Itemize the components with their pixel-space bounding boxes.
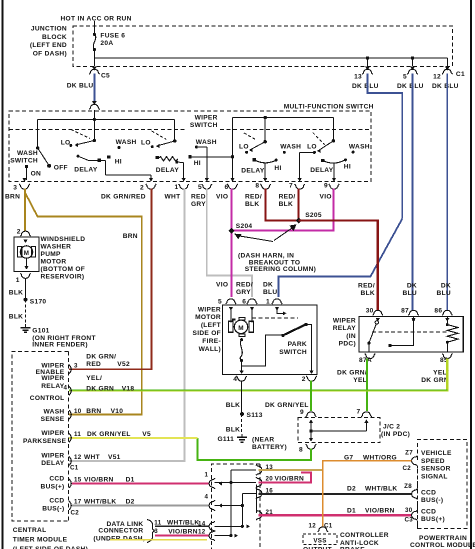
svg-text:V51: V51 — [108, 454, 121, 461]
ground G101 — [25, 324, 27, 328]
svg-text:VSS: VSS — [313, 537, 326, 544]
svg-text:RED/: RED/ — [191, 193, 208, 200]
svg-text:5: 5 — [198, 184, 202, 191]
wire VIO/BRN cup21 to PCM 30 — [259, 514, 412, 516]
svg-text:WASH: WASH — [116, 139, 137, 146]
LO contact to pin7 — [300, 152, 315, 154]
junction block internal feed wire — [94, 57, 447, 59]
svg-text:C3: C3 — [404, 516, 413, 523]
svg-text:DK BLU: DK BLU — [432, 83, 459, 90]
svg-text:3: 3 — [13, 185, 17, 192]
svg-text:LO: LO — [141, 140, 151, 147]
svg-text:YEL: YEL — [353, 377, 367, 384]
svg-text:J/C 2: J/C 2 — [383, 423, 400, 430]
svg-text:1: 1 — [16, 277, 20, 284]
junction cup 20 right — [256, 477, 262, 487]
svg-text:Z7: Z7 — [405, 449, 413, 456]
svg-text:WINDSHIELD: WINDSHIELD — [41, 236, 86, 243]
svg-text:30: 30 — [405, 507, 413, 514]
wire DK GRN/YEL (yellow) CTM pin11 — [69, 437, 198, 439]
svg-text:CCD: CCD — [421, 490, 436, 497]
junction cup 4 left — [209, 500, 215, 510]
wiper motor box — [223, 305, 318, 375]
svg-text:RELAY: RELAY — [333, 325, 357, 332]
connector C1 pin 13 drop — [367, 58, 369, 66]
junction link cup20 to cup21 — [256, 485, 258, 514]
mech linkage dashes section A — [244, 133, 256, 140]
svg-text:DELAY: DELAY — [156, 167, 180, 174]
node feed tap A — [264, 116, 267, 119]
switch blade LO section2 — [157, 141, 174, 146]
wire WHT/ORG stub cup13 — [259, 469, 323, 471]
svg-text:CENTRAL: CENTRAL — [13, 527, 47, 534]
svg-text:POWERTRAIN: POWERTRAIN — [419, 535, 467, 542]
svg-text:BLK: BLK — [226, 402, 240, 409]
svg-text:WASH: WASH — [280, 144, 301, 151]
svg-text:BLK: BLK — [226, 427, 240, 434]
svg-text:BLOCK: BLOCK — [42, 34, 67, 41]
svg-text:DELAY: DELAY — [241, 168, 265, 175]
svg-text:ON: ON — [31, 171, 41, 178]
svg-text:DK: DK — [441, 283, 451, 290]
junction internal bus CCD+ — [230, 470, 232, 536]
svg-text:RED/: RED/ — [358, 283, 375, 290]
svg-text:HI: HI — [115, 159, 122, 166]
svg-text:C1: C1 — [324, 523, 333, 530]
svg-text:RESERVOIR): RESERVOIR) — [41, 274, 85, 281]
wire BRN from pin3 (branch to washer pump and wash sense) — [24, 189, 26, 232]
svg-text:WIPER: WIPER — [198, 306, 221, 313]
svg-text:RED: RED — [86, 361, 101, 368]
svg-text:BRN: BRN — [86, 408, 101, 415]
junction block box (dashed, bottom) — [212, 464, 261, 549]
svg-text:VIO/BRN: VIO/BRN — [275, 476, 305, 483]
svg-text:BLK: BLK — [9, 314, 23, 321]
wash switch — [37, 119, 39, 148]
pin 1 cup — [179, 184, 189, 189]
svg-text:8: 8 — [255, 182, 259, 189]
delay resistor section2 to pin1 — [156, 156, 159, 159]
svg-text:MOTOR: MOTOR — [195, 314, 221, 321]
DLC brace — [147, 520, 155, 543]
svg-text:CONNECTOR: CONNECTOR — [98, 528, 143, 535]
pin 7 cup — [295, 184, 305, 189]
svg-text:SENSOR: SENSOR — [421, 466, 451, 473]
svg-text:WIPER: WIPER — [41, 430, 64, 437]
relay pin 30 cup — [373, 310, 383, 315]
svg-text:1: 1 — [205, 472, 209, 479]
svg-text:VIO/BRN: VIO/BRN — [168, 529, 198, 536]
wire WHT from pin1 to CTM wiper delay — [69, 189, 185, 462]
svg-text:WHT: WHT — [165, 193, 181, 200]
wire YEL under DLC — [110, 539, 207, 541]
node feed entry — [93, 118, 96, 121]
svg-text:VIO: VIO — [216, 193, 228, 200]
svg-text:DK BLU: DK BLU — [352, 83, 379, 90]
svg-text:BLU: BLU — [263, 289, 277, 296]
svg-text:8: 8 — [299, 447, 303, 454]
svg-text:V10: V10 — [111, 408, 124, 415]
svg-text:DK: DK — [263, 282, 273, 289]
switch blade LO section1 — [76, 141, 94, 145]
wire VIO/BRN DLC3 to junction cup12 — [155, 534, 209, 536]
svg-text:VIO: VIO — [320, 193, 332, 200]
multi-function feed wire — [233, 117, 334, 119]
svg-text:86: 86 — [434, 307, 442, 314]
motor pin 2 cup — [306, 376, 316, 381]
svg-text:G111: G111 — [218, 436, 235, 443]
svg-text:S113: S113 — [247, 412, 263, 419]
CTM pin 17 fin CCD- — [69, 501, 71, 510]
multi-function switch box (dashed) — [9, 111, 371, 181]
svg-text:BLK: BLK — [9, 290, 23, 297]
junction cup 12 left — [209, 530, 215, 540]
relay contact 87 branch — [392, 317, 414, 346]
svg-text:SWITCH: SWITCH — [10, 158, 38, 165]
junction internal bus CCD- — [241, 494, 243, 527]
svg-text:1: 1 — [175, 184, 179, 191]
wire DK BLU from C1-5 to wiper relay 87 — [412, 74, 414, 311]
svg-text:3: 3 — [154, 528, 158, 535]
wire RED/GRY from pin5 to motor pin6 — [207, 189, 252, 298]
svg-text:PARKSENSE: PARKSENSE — [23, 438, 67, 445]
delay arc section A to pin8 — [253, 158, 256, 161]
powertrain control module box (dashed) — [418, 440, 468, 529]
svg-text:5: 5 — [218, 298, 222, 305]
wire WHT/ORG VSS to PCM Z7 — [323, 461, 412, 527]
svg-text:2: 2 — [17, 228, 21, 235]
wire stub to HOT label — [93, 21, 95, 27]
svg-text:RED/: RED/ — [245, 193, 262, 200]
section B feed corner pivot — [332, 118, 334, 141]
wire YEL/DK GRN relay 85 to CTM wiper relay control — [69, 359, 447, 391]
svg-text:4: 4 — [205, 494, 209, 501]
svg-text:BUS(+): BUS(+) — [41, 484, 65, 491]
svg-text:WIPER: WIPER — [333, 318, 356, 325]
VSS box (dashed) — [303, 534, 337, 545]
svg-text:S204: S204 — [236, 223, 253, 230]
svg-text:DELAY: DELAY — [41, 460, 65, 467]
svg-text:VIO/BRN: VIO/BRN — [365, 508, 395, 515]
splice S204 — [229, 228, 235, 234]
wash switch drop to pin3 — [22, 178, 26, 182]
motor pin 1 cup — [272, 299, 282, 304]
wire WHT/BLK DLC11 to junction cup14 — [155, 525, 209, 527]
svg-text:DK: DK — [407, 283, 417, 290]
svg-text:RED/: RED/ — [279, 193, 296, 200]
connector C1 pin 5 drop — [412, 58, 414, 66]
motor brush wire wavy to pin4 — [240, 338, 243, 341]
svg-text:OF DASH): OF DASH) — [33, 50, 67, 57]
feed drop to pin6 — [232, 118, 234, 180]
splice S205 — [296, 218, 302, 224]
pin 8 cup — [260, 184, 270, 189]
svg-text:WALL): WALL) — [199, 346, 221, 353]
windshield washer pump motor box — [14, 237, 39, 272]
svg-text:5: 5 — [403, 73, 407, 80]
wiper switch feed wire — [38, 118, 175, 120]
park switch feed from motor — [242, 335, 282, 366]
svg-text:12: 12 — [433, 73, 441, 80]
svg-text:CCD: CCD — [49, 476, 64, 483]
wire BLK motor pin4 to G111 — [241, 381, 243, 415]
J/C2 pin 8 cup — [306, 444, 316, 449]
J/C2 pin 7 cup — [361, 412, 371, 417]
CTM pin 10 fin wash sense — [69, 410, 71, 419]
motor pin1 internal arrow to park switch — [277, 308, 283, 313]
wiper relay box — [359, 316, 463, 352]
svg-text:WASH: WASH — [44, 408, 65, 415]
wire DK GRN/YEL relay 87A to J/C2 pin7 — [366, 359, 368, 412]
svg-text:MOTOR: MOTOR — [41, 259, 67, 266]
svg-text:BLK: BLK — [245, 201, 259, 208]
svg-text:9: 9 — [300, 409, 304, 416]
wiper switch inner dashed line — [9, 128, 186, 130]
park switch output to pin2 — [306, 324, 312, 370]
wire RED/BLK from pin7 to S205 — [297, 189, 299, 221]
park switch dashed linkage — [252, 317, 298, 319]
svg-text:BLK: BLK — [361, 290, 375, 297]
svg-text:D2: D2 — [347, 486, 356, 493]
delay arc section B to pin9 — [321, 159, 324, 162]
junction cup 14 left — [209, 521, 215, 531]
svg-text:G101: G101 — [32, 327, 49, 334]
svg-text:LO: LO — [307, 144, 317, 151]
svg-text:30: 30 — [366, 307, 374, 314]
HI contact section2 to pin6 — [189, 155, 192, 158]
wiper motor symbol M — [230, 308, 232, 322]
svg-text:WHT/BLK: WHT/BLK — [167, 520, 200, 527]
svg-text:GRY: GRY — [236, 289, 251, 296]
J/C 2 box (dashed) — [298, 418, 380, 443]
svg-text:DK GRN: DK GRN — [421, 377, 449, 384]
wire DK GRN/YEL motor pin2 to J/C2 pin9 — [310, 381, 312, 412]
svg-text:VIO: VIO — [216, 282, 228, 289]
junction cup 1 left — [209, 478, 215, 488]
svg-text:DK BLU: DK BLU — [397, 83, 424, 90]
svg-text:(IN PDC): (IN PDC) — [381, 431, 410, 438]
junction cup 21 right — [256, 510, 262, 520]
svg-text:V5: V5 — [142, 431, 151, 438]
blade LO section B — [318, 141, 333, 151]
svg-text:D1: D1 — [347, 508, 356, 515]
svg-text:TIMER MODULE: TIMER MODULE — [13, 536, 68, 543]
wire DK BLU from C5 to wiper switch — [93, 74, 95, 102]
svg-text:SIDE OF: SIDE OF — [193, 330, 221, 337]
svg-text:WASH: WASH — [349, 144, 370, 151]
wire WHT/BLK cup16 to PCM Z8 — [259, 493, 412, 495]
svg-text:SENSE: SENSE — [41, 416, 65, 423]
washer pump pin 2 cup — [20, 231, 30, 236]
CTM pin 15 fin CCD+ — [69, 479, 71, 488]
svg-text:WIPER: WIPER — [41, 375, 64, 382]
pin 6 cup — [227, 184, 237, 189]
svg-text:INNER FENDER): INNER FENDER) — [32, 341, 88, 348]
mech linkage dashes section B — [313, 132, 325, 144]
svg-text:7: 7 — [357, 408, 361, 415]
fuse F6 20A — [93, 27, 95, 34]
svg-text:S170: S170 — [30, 298, 47, 305]
blade LO section A — [250, 142, 265, 150]
svg-text:4: 4 — [233, 376, 237, 383]
pin 5 cup — [202, 184, 212, 189]
svg-text:PUMP: PUMP — [41, 251, 62, 258]
svg-text:WIPER: WIPER — [195, 114, 218, 121]
svg-text:(LEFT: (LEFT — [201, 322, 221, 329]
svg-text:6: 6 — [242, 298, 246, 305]
svg-text:2: 2 — [140, 185, 144, 192]
wire RED/BLK from pin8 to S205 — [266, 189, 299, 221]
junction cup 16 right — [256, 488, 262, 498]
svg-text:HI: HI — [194, 160, 201, 167]
wiper switch section1 pivot — [93, 139, 96, 142]
note arrow to S204 — [239, 236, 274, 242]
PCM pin Z7 cup — [412, 456, 418, 466]
ground G111 — [241, 434, 243, 438]
svg-text:HI: HI — [274, 165, 281, 172]
svg-text:WASHER: WASHER — [41, 244, 72, 251]
relay pin 85 cup — [442, 354, 452, 359]
relay actuator dashed — [372, 331, 447, 333]
pin 3 cup — [19, 184, 29, 189]
svg-text:BRN: BRN — [123, 233, 138, 240]
svg-text:(BOTTOM OF: (BOTTOM OF — [41, 266, 86, 273]
svg-text:DK GRN/: DK GRN/ — [337, 369, 367, 376]
svg-text:CCD: CCD — [49, 498, 64, 505]
park switch blade — [281, 334, 284, 337]
svg-text:DELAY: DELAY — [310, 167, 334, 174]
svg-text:(IN: (IN — [346, 333, 356, 340]
PCM pin 30 cup — [412, 510, 418, 520]
CTM pin 12 fin wiper delay — [69, 457, 71, 466]
wiper switch section2 pivot — [174, 119, 176, 141]
relay pin 87A cup — [365, 354, 375, 359]
svg-text:BATTERY): BATTERY) — [252, 444, 287, 451]
wire DK BLU from C1-12 to wiper relay 86 — [446, 74, 448, 311]
svg-text:BLU: BLU — [403, 290, 417, 297]
svg-text:RED/: RED/ — [236, 282, 253, 289]
page border left — [1, 0, 3, 549]
svg-text:6: 6 — [225, 184, 229, 191]
svg-text:11: 11 — [154, 520, 161, 527]
svg-text:3: 3 — [74, 363, 78, 370]
svg-text:SWITCH: SWITCH — [279, 349, 307, 356]
relay coil — [446, 317, 448, 325]
wire DK BLU from C1-13 down with jog — [368, 74, 403, 219]
pin 2 cup — [146, 184, 156, 189]
svg-text:RELAY: RELAY — [41, 383, 65, 390]
svg-text:20A: 20A — [100, 40, 113, 47]
delay contact section1 — [77, 155, 80, 158]
junction block box (dashed) — [73, 26, 453, 66]
relay pin 86 cup — [442, 310, 452, 315]
svg-text:SWITCH: SWITCH — [190, 122, 218, 129]
splice S113 — [240, 412, 244, 416]
svg-text:14: 14 — [198, 520, 206, 527]
pin 9 cup — [329, 184, 339, 189]
svg-text:V52: V52 — [117, 361, 130, 368]
node junction for C1-13 — [366, 56, 369, 59]
relay pin 87 cup — [408, 310, 418, 315]
svg-text:2: 2 — [302, 376, 306, 383]
svg-text:JUNCTION: JUNCTION — [31, 26, 67, 33]
section A pivot — [264, 118, 266, 142]
svg-text:DK GRN/YEL: DK GRN/YEL — [87, 431, 131, 438]
svg-text:CONTROL: CONTROL — [30, 395, 65, 402]
svg-text:DK GRN/RED: DK GRN/RED — [101, 193, 146, 200]
svg-text:WHT/BLK: WHT/BLK — [365, 486, 398, 493]
svg-text:10: 10 — [74, 408, 82, 415]
svg-text:FIRE-: FIRE- — [202, 338, 221, 345]
node junction for C1-5 — [411, 56, 414, 59]
svg-text:WHT: WHT — [84, 454, 100, 461]
svg-text:12: 12 — [198, 529, 206, 536]
svg-text:87A: 87A — [359, 357, 372, 364]
svg-text:FUSE 6: FUSE 6 — [100, 33, 125, 40]
motor pin 6 cup — [247, 299, 257, 304]
svg-text:M: M — [238, 325, 244, 332]
svg-text:YEL/: YEL/ — [86, 375, 102, 382]
svg-text:(LEFT END: (LEFT END — [30, 42, 67, 49]
wire VIO from pin6 through S204 to motor pin5 — [231, 189, 233, 298]
svg-text:DK GRN/: DK GRN/ — [86, 353, 116, 360]
svg-text:S205: S205 — [305, 212, 322, 219]
mech linkage dashes section2 — [152, 131, 167, 139]
svg-text:Z8: Z8 — [404, 483, 412, 490]
CTM pin 3 fin wiper enable — [69, 365, 71, 374]
wire BLK pump pin1 to G101 — [25, 278, 27, 300]
svg-text:CCD: CCD — [421, 509, 436, 516]
svg-text:SIGNAL: SIGNAL — [421, 474, 448, 481]
washer pump pin 1 cup — [20, 273, 30, 278]
svg-text:CONTROL MODULE: CONTROL MODULE — [410, 542, 475, 549]
wire VIO/BRN CTM15 to junction cup1 — [72, 482, 209, 484]
svg-text:12: 12 — [74, 454, 82, 461]
svg-text:BUS(+): BUS(+) — [421, 516, 445, 523]
svg-text:(UNDER DASH,: (UNDER DASH, — [93, 535, 145, 542]
svg-text:C2: C2 — [71, 510, 80, 517]
svg-text:BUS(-): BUS(-) — [421, 497, 443, 504]
svg-text:STEERING COLUMN): STEERING COLUMN) — [245, 266, 316, 273]
relay armature blade — [375, 321, 378, 324]
svg-text:BRN: BRN — [5, 193, 20, 200]
wire DK GRN/YEL J/C2 pin8 to CTM parksense — [198, 438, 311, 460]
mech linkage dashes section1 — [71, 130, 90, 139]
svg-text:BLK: BLK — [279, 201, 293, 208]
svg-text:SPEED: SPEED — [421, 458, 445, 465]
connector C5 drop — [93, 58, 95, 66]
svg-text:WASH: WASH — [17, 150, 38, 157]
wire RED/BLK from S205 to relay 30 — [299, 221, 378, 311]
svg-text:BUS(-): BUS(-) — [42, 506, 64, 513]
svg-text:C5: C5 — [101, 72, 110, 79]
svg-text:12: 12 — [309, 523, 317, 530]
svg-text:PDC): PDC) — [339, 341, 356, 348]
svg-text:(NEAR: (NEAR — [252, 436, 274, 443]
CTM pin 11 fin wiper parksense — [69, 433, 71, 442]
PCM pin Z8 cup — [412, 489, 418, 499]
page border right — [470, 0, 472, 549]
svg-text:HI: HI — [344, 164, 351, 171]
wire DK GRN/RED from pin2 to CTM wiper enable — [69, 189, 152, 370]
svg-text:DELAY: DELAY — [74, 166, 98, 173]
svg-text:BLU: BLU — [437, 290, 451, 297]
wire WHT/BLK CTM17 to junction cup4 — [72, 505, 209, 507]
svg-text:OFF: OFF — [54, 164, 68, 171]
svg-text:LO: LO — [239, 144, 249, 151]
svg-text:WASH: WASH — [196, 139, 217, 146]
CTM pin 4 fin wiper relay control — [69, 386, 71, 395]
